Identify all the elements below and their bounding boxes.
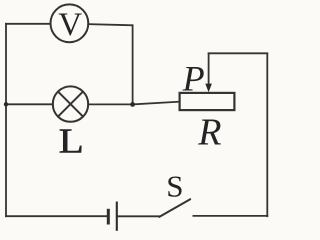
node: junction right [130, 102, 135, 107]
wire: top, right of voltmeter [88, 24, 132, 25]
lamp L [53, 86, 88, 121]
switch S blade [159, 199, 190, 217]
wire: wiper riser [208, 54, 210, 84]
rheostat R (resistor body) [180, 93, 235, 110]
battery (cell): short negative plate [107, 209, 110, 225]
wire: bottom, right of switch [193, 215, 267, 217]
wire: bottom, left of battery [6, 215, 108, 217]
svg-text:S: S [166, 169, 183, 204]
battery (cell): long positive plate [116, 202, 118, 231]
wire: bottom, battery to switch pivot [117, 215, 160, 217]
wire: right side of voltmeter loop [132, 25, 134, 104]
wire: junction to rheostat left terminal [133, 102, 180, 105]
wire: middle row, left of lamp [6, 103, 53, 105]
svg-text:V: V [58, 7, 82, 43]
wire: right vertical [266, 54, 268, 217]
wiper arrow head [205, 84, 212, 93]
wire: top, left of voltmeter [6, 23, 51, 25]
svg-text:R: R [197, 111, 221, 153]
wire: middle row, right of lamp [88, 103, 132, 105]
svg-text:L: L [59, 122, 84, 160]
wire: left vertical [5, 24, 7, 216]
voltmeter V [51, 4, 89, 42]
node: junction left [4, 102, 8, 106]
wire: top right horizontal [209, 52, 268, 54]
svg-text:P: P [182, 58, 205, 98]
